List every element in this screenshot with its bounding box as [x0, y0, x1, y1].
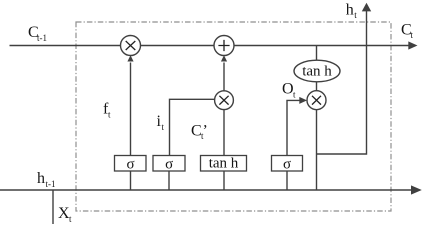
svg-text:h: h [37, 170, 45, 187]
svg-text:O: O [282, 81, 294, 98]
svg-text:σ: σ [283, 157, 291, 173]
svg-text:t: t [69, 214, 72, 224]
svg-text:h: h [346, 2, 354, 19]
svg-text:tan h: tan h [302, 64, 332, 80]
svg-text:σ: σ [165, 157, 173, 173]
svg-text:t: t [293, 90, 296, 100]
svg-text:t: t [411, 30, 414, 40]
svg-text:t: t [354, 10, 357, 20]
svg-text:t-1: t-1 [46, 179, 56, 189]
svg-text:t: t [162, 122, 165, 132]
svg-text:t: t [108, 110, 111, 120]
svg-text:tan h: tan h [209, 156, 239, 172]
svg-text:σ: σ [126, 157, 134, 173]
svg-text:t-1: t-1 [37, 33, 47, 43]
